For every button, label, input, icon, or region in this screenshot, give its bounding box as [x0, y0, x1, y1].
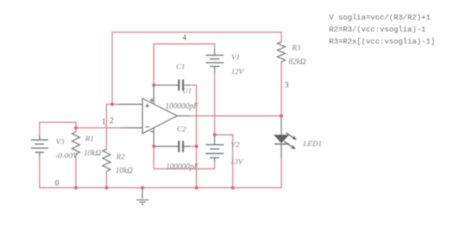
svg-text:C2: C2	[177, 125, 186, 134]
svg-text:10kΩ: 10kΩ	[84, 148, 102, 157]
svg-text:12V: 12V	[231, 67, 245, 76]
svg-text:C1: C1	[176, 62, 185, 71]
svg-text:R3=R2x[(vcc:vsoglia)-1]: R3=R2x[(vcc:vsoglia)-1]	[329, 38, 435, 46]
svg-text:V1: V1	[231, 53, 240, 62]
svg-text:LED1: LED1	[302, 139, 322, 148]
svg-text:R3: R3	[291, 43, 301, 52]
svg-text:100000pF: 100000pF	[166, 162, 199, 171]
svg-text:V2: V2	[231, 140, 240, 149]
svg-text:U1: U1	[182, 86, 192, 95]
svg-text:R1: R1	[84, 134, 94, 143]
svg-text:V soglia=vcc/(R3/R2)+1: V soglia=vcc/(R3/R2)+1	[329, 15, 431, 23]
svg-text:82kΩ: 82kΩ	[289, 57, 307, 66]
svg-text:0: 0	[55, 178, 59, 187]
svg-text:100000pF: 100000pF	[165, 102, 198, 111]
svg-text:R2=R3/(vcc:vsoglia)-1: R2=R3/(vcc:vsoglia)-1	[329, 27, 426, 35]
svg-text:4: 4	[182, 33, 186, 42]
svg-text:2: 2	[110, 116, 114, 125]
svg-text:3: 3	[285, 81, 289, 90]
svg-text:10kΩ: 10kΩ	[116, 166, 134, 175]
svg-text:-0.00V: -0.00V	[55, 151, 79, 160]
svg-text:1: 1	[102, 117, 106, 126]
svg-text:R2: R2	[115, 152, 125, 161]
svg-text:12V: 12V	[230, 157, 244, 166]
svg-text:V3: V3	[56, 137, 65, 146]
